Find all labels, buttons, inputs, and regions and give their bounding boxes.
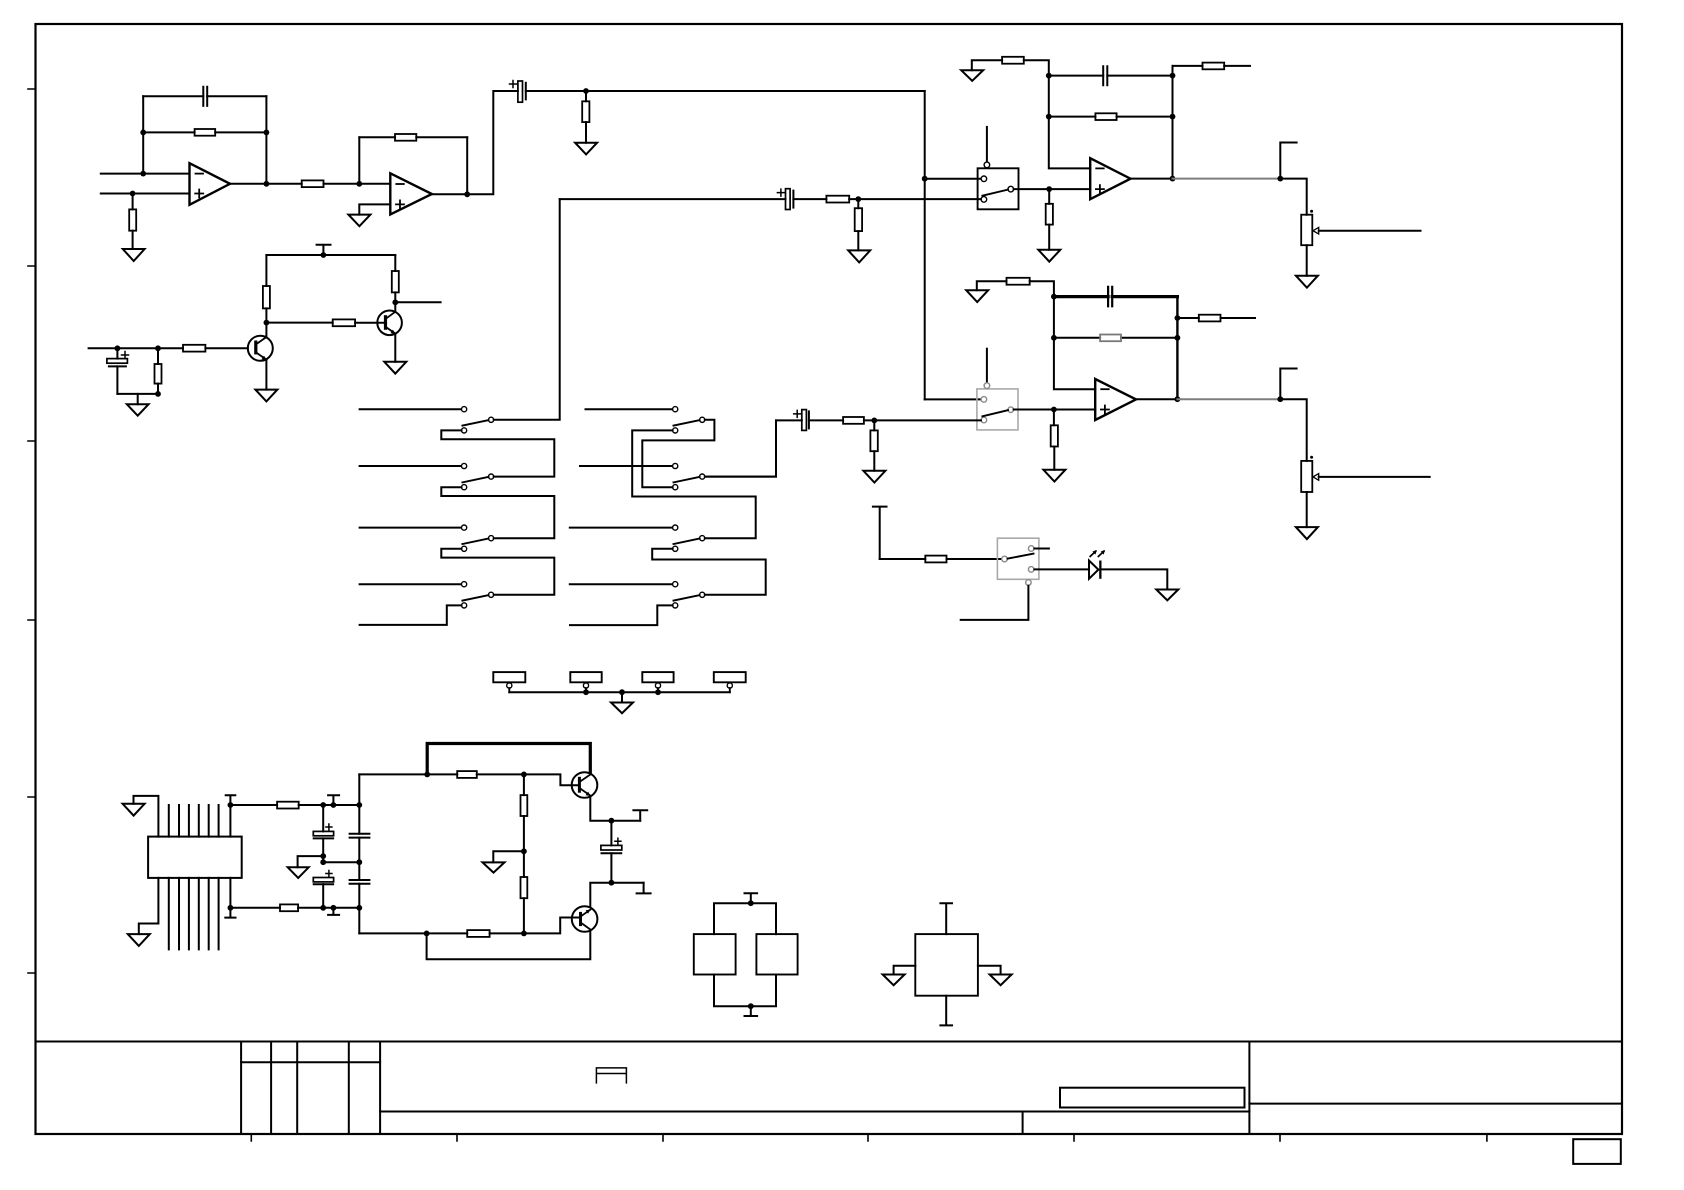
wire SW1 common to U2A plus [1014, 188, 1091, 190]
node fb right [264, 130, 270, 136]
SW3 lever [1008, 554, 1034, 559]
SW5 contact 4a [673, 582, 678, 587]
resistor R3 [129, 209, 136, 230]
node ceramic mid [356, 859, 362, 865]
resistor R19 [1100, 335, 1121, 342]
ground [1296, 527, 1318, 539]
power rail mic stage [266, 254, 395, 256]
wire wiper ch2 [1319, 476, 1430, 478]
wire fb right vertical ch1 [1172, 66, 1174, 179]
capacitor C3 polarized [116, 348, 118, 358]
node U1A inv [140, 171, 146, 177]
wire R24 to SW3 [947, 558, 1002, 560]
SW5 common 1 [700, 417, 705, 422]
T1 bottom pins [169, 878, 219, 950]
SW4 common 2 [489, 474, 494, 479]
node out minus [609, 880, 615, 886]
resistor R23 [870, 430, 877, 451]
wire U1B feedback top [359, 136, 467, 138]
wire M1 right pin [978, 966, 1001, 975]
SW1 left bottom contact [981, 197, 987, 203]
node bus j2 [583, 689, 589, 695]
node R19 left [1051, 335, 1057, 341]
resistor R4 [302, 180, 324, 187]
wire SW4 link 1-2 [441, 430, 554, 476]
wire bus to SW2 [925, 398, 981, 400]
wire U1B output [432, 91, 518, 194]
wire SW5 pole4 lower feed [570, 605, 673, 625]
power tap out minus [637, 883, 651, 894]
capacitor C4 [1103, 66, 1107, 85]
node feed ch1 [855, 196, 861, 202]
op-amp U1A [190, 163, 231, 205]
wire stub connector ch1 [1280, 143, 1296, 179]
ground input bias ch1 [961, 70, 983, 81]
wire R14 row [1173, 65, 1251, 67]
wire collector stub [395, 301, 440, 303]
SW5 contact 3b [673, 546, 678, 551]
SW2 top contact [984, 383, 990, 389]
node rail ceramic [356, 802, 362, 808]
wire SW5 common2 out [705, 476, 776, 478]
wire fb left vertical ch1 [1049, 76, 1090, 169]
SW5 contact 3a [673, 525, 678, 530]
node fb left [140, 130, 146, 136]
node U1B out [464, 191, 470, 197]
wire R16 to SW1 [849, 198, 981, 200]
wire R22 to SW2 [864, 419, 981, 421]
wire U2A output [1131, 178, 1173, 180]
ground [288, 867, 309, 878]
node rail [321, 252, 327, 258]
node R19 right [1175, 335, 1181, 341]
node out plus [609, 818, 615, 824]
node lower left [424, 931, 430, 937]
capacitor C10 [350, 834, 370, 838]
title block column dividers [241, 1042, 380, 1135]
wire negative rail [230, 907, 359, 909]
ground [575, 143, 597, 155]
resistor R25 [277, 802, 299, 809]
wire R9 to Q2 base [355, 322, 384, 324]
wire T1 pin8 top [226, 795, 236, 836]
title block long row line [380, 1111, 1249, 1113]
SW2 left bottom contact [981, 417, 987, 423]
wire pot bottom ch1 [1306, 245, 1308, 276]
transistor Q4 [572, 906, 598, 932]
node bold left [424, 772, 430, 778]
wire mic input [89, 347, 248, 349]
transistor Q1 [248, 336, 273, 361]
ground [123, 249, 145, 261]
wire SW5 pole 2 input [580, 465, 673, 467]
power tap up [328, 795, 339, 805]
SW5 lever 1 [674, 420, 700, 426]
node fb left top ch1 [1046, 73, 1052, 79]
wire Q1 emitter [265, 360, 267, 390]
ground [1296, 276, 1318, 288]
op-amp U1B [390, 173, 432, 214]
wire bottom loop [427, 932, 591, 960]
wire R23 [873, 420, 875, 470]
wire ch2 feed riser [705, 420, 776, 476]
wire to pot ch1 [1280, 179, 1306, 215]
node U2B out [1175, 396, 1181, 402]
SW1 left top contact [981, 176, 987, 182]
SW5 contact 2a [673, 463, 678, 468]
wire C5 to R16 [793, 198, 826, 200]
SW4 common 3 [489, 536, 494, 541]
module M1 [915, 934, 978, 996]
SW2 lever [982, 410, 1008, 416]
wire M1 top pin [940, 903, 952, 934]
wire U1B feedback left [358, 137, 360, 184]
wire SW2 top stub [986, 349, 988, 383]
potentiometer VR2 [1301, 461, 1312, 492]
capacitor C6 [1108, 287, 1112, 306]
node U1A plus [130, 191, 136, 197]
wire ceramic column [358, 774, 360, 933]
node U2A out [1170, 176, 1176, 182]
node feed ch2 [871, 418, 877, 424]
wire SW3 bottom [961, 586, 1029, 620]
wire upper reg line [359, 774, 578, 785]
switch SW1 [978, 168, 1019, 209]
node pack bottom [748, 1003, 754, 1009]
resistor R8 base [183, 345, 205, 352]
wire bold top [427, 744, 590, 775]
wire to pot ch2 [1280, 399, 1306, 461]
SW3 top right contact [1028, 546, 1034, 552]
wire mid link [323, 861, 359, 863]
wire C7 to R22 [809, 419, 843, 421]
SW5 lever 4 [674, 595, 700, 601]
wire SW5 common1 to pole2 [642, 420, 714, 487]
wire M1 left pin [894, 966, 916, 975]
wire T1 pin1 top to ground [134, 796, 159, 837]
wire bus vertical lower [924, 179, 926, 400]
ground [483, 862, 505, 872]
SW1 common contact [1008, 186, 1014, 192]
ground [1038, 250, 1060, 262]
transistor Q2 [377, 311, 402, 336]
op-amp U2B [1095, 379, 1136, 420]
wire feedback left vertical [142, 96, 144, 173]
wire positive rail [230, 804, 359, 806]
SW3 right contact [1028, 567, 1034, 573]
wire out gray ch1 [1173, 178, 1281, 180]
wire R29 [523, 851, 525, 933]
SW5 common 3 [700, 536, 705, 541]
node U1A out [264, 181, 270, 187]
SW5 contact 1b [673, 428, 678, 433]
connector J3 [642, 672, 673, 682]
wire gnd to R18 [977, 281, 1007, 290]
wire bias bottom [117, 393, 158, 395]
wire bias ground [493, 851, 524, 862]
wire C2 to bus [526, 90, 925, 92]
wire SW1 top stub [986, 127, 988, 162]
node mid bias [521, 848, 527, 854]
wire out gray ch2 [1177, 398, 1280, 400]
node R29 bottom [521, 931, 527, 937]
wire pack top [714, 903, 776, 934]
resistor R26 [280, 904, 298, 911]
SW4 contact 3a [462, 525, 467, 530]
wire U1B feedback right [466, 137, 468, 194]
node R6 tap [583, 88, 589, 94]
SW5 contact 4b [673, 603, 678, 608]
node pack top [748, 900, 754, 906]
wire to R24 [880, 558, 926, 560]
wire U1B plus to ground [359, 204, 390, 214]
node rail C8 [320, 802, 326, 808]
left border zone ticks [28, 89, 36, 973]
ground input bias ch2 [966, 290, 988, 302]
wire R15 [1048, 189, 1050, 250]
wire U2B output [1136, 398, 1177, 400]
SW4 contact 1b [462, 428, 467, 433]
SW4 common 1 [489, 417, 494, 422]
capacitor C1 [203, 87, 207, 106]
switch SW2 [977, 389, 1018, 430]
node R10 tap [155, 345, 161, 351]
SW4 contact 4b [462, 603, 467, 608]
wire Q1 collector to R9 [266, 322, 332, 324]
node U1B inv [356, 181, 362, 187]
resistor R21 [1051, 425, 1058, 446]
SW5 lever 2 [674, 477, 700, 483]
resistor R30 [467, 930, 489, 937]
wire SW5 pole1 lower to common3 [632, 430, 756, 538]
wire SW4 common 1 riser [494, 199, 560, 420]
wire signal bus vertical [924, 91, 926, 179]
resistor R6 [582, 101, 589, 122]
bottom border zone ticks [251, 1134, 1487, 1141]
ground [848, 250, 870, 262]
node C3 tap [115, 345, 121, 351]
capacitor C5 polarized [786, 189, 791, 210]
node C8 bottom [320, 853, 326, 859]
SW4 contact 2b [462, 485, 467, 490]
SW3 left contact [1002, 556, 1008, 562]
SW4 lever 3 [462, 539, 488, 545]
node bus mid [619, 689, 625, 695]
power tap out plus [633, 810, 647, 820]
resistor R2 [195, 129, 216, 136]
node fb left top ch2 [1051, 294, 1057, 300]
resistor R16 [826, 196, 849, 203]
drawing number box [1060, 1088, 1245, 1108]
wire R18 to fb node [1030, 281, 1054, 296]
wire Q3 emitter [590, 797, 640, 821]
wire mid ground [298, 856, 324, 867]
connector J4 [714, 672, 746, 682]
SW1 lever [982, 190, 1008, 196]
node pot tap ch1 [1277, 176, 1283, 182]
node R28 top [521, 772, 527, 778]
T1 top pins [169, 805, 219, 837]
wire SW4 pole 1 input [360, 408, 462, 410]
wire LED power stub [873, 507, 887, 559]
wire fb right vertical ch2 [1176, 297, 1178, 400]
wire R3 top [132, 194, 134, 210]
capacitor C7 polarized [802, 410, 807, 431]
capacitor C9 polarized [326, 871, 332, 877]
wire R20 row [1177, 317, 1255, 319]
SW5 common 4 [700, 592, 705, 597]
title block right row line [1249, 1103, 1622, 1105]
op-amp U2A [1090, 158, 1130, 199]
resistor R5 [395, 134, 416, 141]
title block right divider [1248, 1042, 1250, 1135]
ground [863, 471, 885, 483]
wire SW3 top stub [1034, 548, 1049, 550]
cell B1 [694, 934, 736, 974]
wire gnd to R12 [972, 60, 1002, 70]
resistor R13 [1095, 113, 1116, 120]
SW4 lever 4 [462, 595, 488, 601]
capacitor C12 polarized [610, 821, 612, 846]
resistor R17 [855, 208, 862, 231]
wire R28 [523, 774, 525, 851]
wire R3 bottom [132, 231, 134, 249]
wire U1A output [230, 183, 302, 185]
wire cap row ch1 [1049, 75, 1173, 77]
SW2 common contact [1008, 407, 1014, 413]
wire pot bottom ch2 [1306, 492, 1308, 527]
ground [1156, 590, 1178, 601]
capacitor C11 [350, 880, 370, 884]
ground [137, 394, 139, 404]
node plus ch1 [1046, 186, 1052, 192]
transformer T1 box [148, 837, 242, 878]
power tap [317, 245, 331, 255]
wire Q2 emitter [394, 334, 396, 361]
connector J2 [570, 672, 601, 682]
wire SW4 link 2-3 [441, 487, 554, 538]
first angle projection symbol [596, 1068, 626, 1083]
wire ch2 feed line [776, 419, 802, 421]
title block lower divider [1022, 1112, 1024, 1135]
SW5 contact 1a [673, 407, 678, 412]
resistor R15 [1046, 204, 1053, 225]
wire R7 [265, 255, 267, 323]
bottom right sheet box [1573, 1139, 1621, 1164]
wire pack bottom [714, 975, 776, 1007]
title block top edge [36, 1041, 1623, 1043]
resistor R9 [333, 319, 355, 326]
wire SW3 to LED [1034, 568, 1089, 570]
node R13 right [1170, 114, 1176, 120]
wire SW2 common to U2B plus [1014, 409, 1096, 411]
wire SW4 pole 4 input [360, 583, 462, 585]
wire SW5 pole 4 input [570, 583, 673, 585]
node plus ch2 [1051, 407, 1057, 413]
node C9 bottom rail [320, 905, 326, 911]
cell B2 [756, 934, 797, 974]
node pin8 bottom [228, 905, 234, 911]
resistor R29 [521, 877, 528, 898]
capacitor C8 polarized [322, 805, 324, 831]
wire ch1 feed line [560, 198, 786, 200]
wire LED cathode [1102, 569, 1168, 589]
SW5 common 2 [700, 474, 705, 479]
wire SW4 pole 3 input [360, 527, 462, 529]
SW2 left top contact [981, 397, 987, 403]
ground [611, 703, 633, 714]
wire Q4 emitter [590, 883, 643, 907]
wire SW5 pole3 lower to common4 [652, 549, 766, 595]
wire stub connector ch2 [1280, 369, 1296, 400]
ground [384, 362, 406, 374]
node cap right ch1 [1170, 73, 1176, 79]
wire cap row ch2 bold [1054, 295, 1178, 298]
ground [883, 975, 905, 986]
resistor R11 [392, 271, 399, 292]
node Q1 collector [264, 320, 270, 326]
resistor R28 [521, 795, 528, 816]
wire R21 [1053, 410, 1055, 470]
ground [348, 215, 370, 227]
SW4 contact 3b [462, 546, 467, 551]
capacitor C2 polarized [518, 81, 523, 102]
node R13 left [1046, 114, 1052, 120]
wire SW4 link 3-4 [441, 549, 554, 595]
ground [123, 804, 145, 816]
wire feedback resistor row [143, 131, 266, 133]
SW4 contact 1a [462, 407, 467, 412]
wire R6 [585, 91, 587, 143]
wire bus to SW1 [925, 178, 981, 180]
power tap down [328, 908, 339, 915]
node ceramic bottom [356, 905, 362, 911]
wire U1A non-inverting input [101, 193, 190, 195]
ground [1043, 470, 1065, 482]
SW4 lever 2 [462, 477, 488, 483]
resistor R7 [263, 286, 270, 308]
wire R4 to U1B [324, 183, 391, 185]
node rail tap2 [331, 905, 337, 911]
SW4 common 4 [489, 592, 494, 597]
battery pack bottom tap [745, 1006, 758, 1016]
node mid link [320, 859, 326, 865]
wire SW4 pole 2 input [360, 465, 462, 467]
SW1 top contact [984, 162, 990, 168]
wire M1 bottom pin [940, 996, 952, 1026]
node Q2 collector [392, 299, 398, 305]
wire T1 pin1 bottom to ground [139, 878, 159, 934]
connector J1 [493, 672, 525, 682]
SW4 contact 4a [462, 582, 467, 587]
potentiometer VR1 [1301, 215, 1312, 246]
wire SW4 pole 4 lower feed [360, 605, 462, 625]
resistor R10 [155, 364, 162, 384]
wire ground bus [509, 691, 730, 693]
wire feedback right vertical [265, 96, 267, 184]
resistor R18 [1007, 278, 1030, 285]
node pin8 top [228, 802, 234, 808]
LED D1 [1089, 561, 1098, 579]
switch SW3 [997, 538, 1039, 579]
wire fb left vertical ch2 [1054, 297, 1095, 390]
battery pack top tap [745, 893, 758, 903]
wire wiper ch1 [1319, 230, 1421, 232]
ground [255, 390, 277, 402]
SW5 lever 3 [674, 539, 700, 545]
SW5 contact 2b [673, 485, 678, 490]
wire U1A inverting input [101, 173, 190, 175]
